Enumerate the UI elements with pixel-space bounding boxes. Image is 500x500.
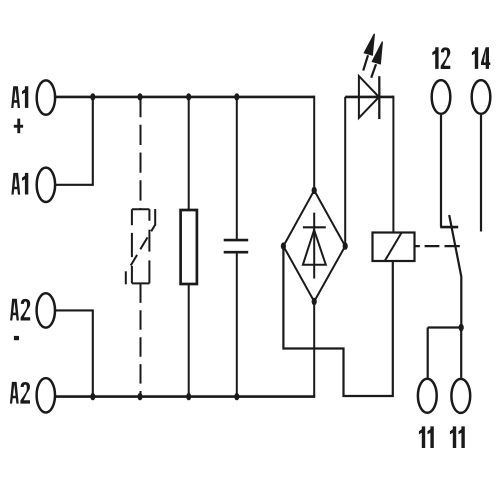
- LED arrow 2 shaft: [371, 64, 376, 78]
- label -: [14, 336, 19, 340]
- terminal A2 upper: [37, 293, 55, 327]
- node dot top rail x237: [234, 93, 239, 100]
- wire LED horizontal: [345, 96, 393, 99]
- node dot bridge right: [343, 242, 348, 249]
- wire bridge right corner up to LED: [344, 97, 346, 246]
- wire bottom rail A2: [56, 395, 315, 398]
- node dot bottom rail x140: [138, 393, 143, 400]
- terminal A1 lower: [37, 168, 55, 202]
- wire rail drop to bridge top: [313, 96, 315, 191]
- label 11 left: [419, 426, 434, 448]
- wire blade down to 11 right: [460, 328, 462, 378]
- wire 11 tee horizontal: [428, 326, 462, 328]
- node dot bridge top: [312, 187, 317, 194]
- node dot top rail x140: [138, 93, 143, 100]
- bridge inner diode vertical line: [313, 213, 315, 279]
- wire coil bottom loop to bridge left corner: [283, 246, 392, 396]
- node dot 11 junction: [459, 324, 464, 331]
- wire varistor branch bottom (dashed): [140, 283, 142, 396]
- LED triangle: [359, 76, 379, 118]
- terminal A2 lower: [37, 378, 55, 412]
- node dot bottom rail x189: [186, 393, 191, 400]
- LED cathode bar: [378, 76, 380, 119]
- wire terminal 14 stub: [480, 115, 482, 232]
- wire A2 upper link: [56, 310, 93, 396]
- dashed actuation link coil to contact: [415, 245, 460, 247]
- wire top rail A1: [56, 96, 314, 99]
- bridge inner diode cathode bar: [303, 226, 326, 228]
- wire bridge bottom drop: [313, 302, 315, 397]
- node dot bottom rail x237: [234, 393, 239, 400]
- LED arrow 1 head: [364, 34, 374, 55]
- label 12: [432, 47, 450, 69]
- label A2 (lower): [10, 382, 30, 404]
- wire LED down to coil: [392, 96, 394, 233]
- wire varistor branch top (dashed): [140, 97, 142, 209]
- varistor RU body (dashed rect): [132, 209, 150, 283]
- terminal 11 right: [451, 379, 470, 413]
- relay coil diagonal: [385, 233, 402, 261]
- label A1 (lower): [11, 173, 28, 195]
- label 11 right: [450, 426, 465, 448]
- terminal A1 upper: [37, 80, 55, 114]
- contact blade: [449, 215, 461, 328]
- wire A1 lower link: [56, 97, 93, 185]
- wire terminal 12 down: [440, 115, 442, 227]
- capacitor C plate upper: [224, 239, 249, 242]
- capacitor C plate lower: [224, 251, 249, 254]
- resistor R body: [181, 210, 197, 284]
- node dot bottom rail x93: [90, 393, 95, 400]
- wire capacitor branch bottom: [236, 252, 238, 396]
- LED arrow 2 head: [372, 42, 382, 64]
- label A1 (upper): [11, 86, 28, 108]
- wire 11 left drop: [427, 328, 429, 378]
- node dot top rail x93: [90, 93, 95, 100]
- node dot top rail x189: [186, 93, 191, 100]
- LED arrow 1 shaft: [363, 55, 368, 70]
- label 14: [472, 47, 490, 69]
- wire resistor branch bottom: [188, 284, 190, 397]
- label +: [14, 119, 23, 134]
- terminal 12: [432, 80, 451, 114]
- varistor diagonal (dashed, vertical tails): [126, 209, 155, 284]
- relay coil K body: [373, 233, 415, 262]
- node dot bridge left: [281, 242, 286, 249]
- terminal 14: [472, 80, 491, 114]
- contact 12 fixed bar: [440, 226, 458, 229]
- bridge inner diode triangle: [303, 230, 326, 265]
- terminal 11 left: [418, 379, 437, 413]
- wire capacitor branch top: [236, 97, 238, 240]
- label A2 (upper): [10, 299, 30, 321]
- wire resistor branch top: [188, 97, 190, 210]
- bridge rectifier diamond: [283, 190, 345, 301]
- node dot bridge bottom: [312, 298, 317, 305]
